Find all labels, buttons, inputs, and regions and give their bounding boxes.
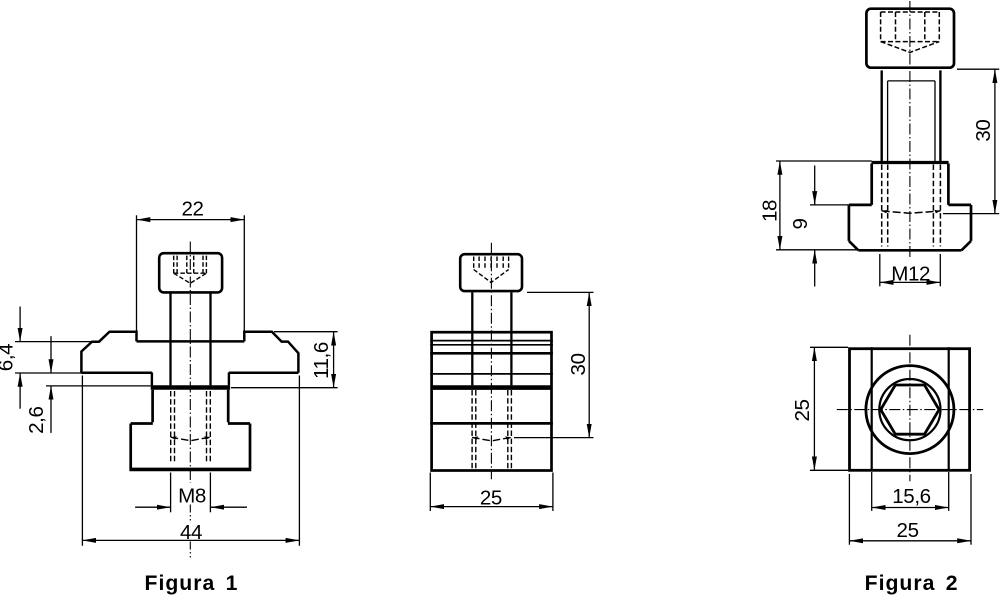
screw head (hex socket cap) figure 1 [159,253,222,292]
svg-text:6,4: 6,4 [0,344,18,371]
T-nut boss step figure 1 [151,372,153,385]
svg-text:25: 25 [791,399,814,421]
svg-text:Figura 1: Figura 1 [145,572,239,595]
center line side view [490,243,492,480]
dimension 44 [82,376,299,546]
center lines top view [837,409,983,411]
dimension 25 side view [430,473,553,512]
svg-text:11,6: 11,6 [310,342,333,379]
neck edges top view [871,347,873,470]
center line figure 1 [189,242,191,484]
thread end ticks figure 1 [171,436,211,440]
dimension 2,6 [46,336,151,433]
dimension 18 [776,161,872,250]
svg-text:25: 25 [897,519,919,542]
screw shaft figure 1 [169,293,171,385]
svg-text:30: 30 [567,353,590,375]
thread end ticks side view [472,436,511,440]
T-nut body figure 1 [131,390,250,468]
serration lines side view [430,340,553,342]
dimension M12 [880,254,941,286]
T-foot top thick edge [872,161,949,164]
dimension 9 [810,166,849,287]
svg-text:M8: M8 [178,484,206,507]
block outline side view [432,332,552,470]
svg-text:9: 9 [789,218,812,229]
dimension 22 [137,215,245,331]
hex socket top view [881,385,939,434]
screw shaft side view [471,292,473,385]
screw tip ticks T-bolt [882,210,941,214]
svg-text:18: 18 [758,200,781,222]
screw head side view [460,254,522,291]
serrated clamp plate outline figure 1 [81,332,298,373]
svg-text:44: 44 [180,521,202,544]
hidden thread side view [472,390,511,468]
threaded shaft T-bolt [881,70,883,161]
dimension M8 [135,473,247,513]
dimension 25 left top view [810,347,848,470]
square body top view [850,349,970,471]
T-foot outline [849,164,971,251]
head circle top view [866,366,954,454]
dimension 30 side view [514,292,594,437]
socket circle top view [879,379,940,440]
center line T-bolt [909,1,911,260]
dimension 6,4 [15,307,92,409]
svg-text:30: 30 [972,120,995,142]
hidden thread M8 figure 1 [171,391,211,464]
hidden thread in T-foot [882,165,941,247]
hex socket hidden lines side view [474,257,509,283]
svg-text:2,6: 2,6 [25,406,48,433]
joint thick line side view [431,385,553,390]
dimension 11,6 [231,332,338,388]
svg-text:15,6: 15,6 [892,485,930,508]
dimension 30 T-bolt [943,69,999,213]
svg-text:Figura 2: Figura 2 [865,572,959,595]
hex socket hidden lines T-bolt [881,12,940,52]
screw head T-bolt [866,9,954,68]
T-nut top thick edge figure 1 [151,385,230,390]
hex socket hidden lines figure 1 [174,256,207,284]
svg-text:22: 22 [181,197,203,220]
dimension 15,6 [872,472,949,511]
svg-text:25: 25 [480,486,502,509]
dimension 25 bottom top view [849,474,971,545]
T-nut shoulder line side view [430,422,553,425]
svg-text:M12: M12 [891,263,930,286]
